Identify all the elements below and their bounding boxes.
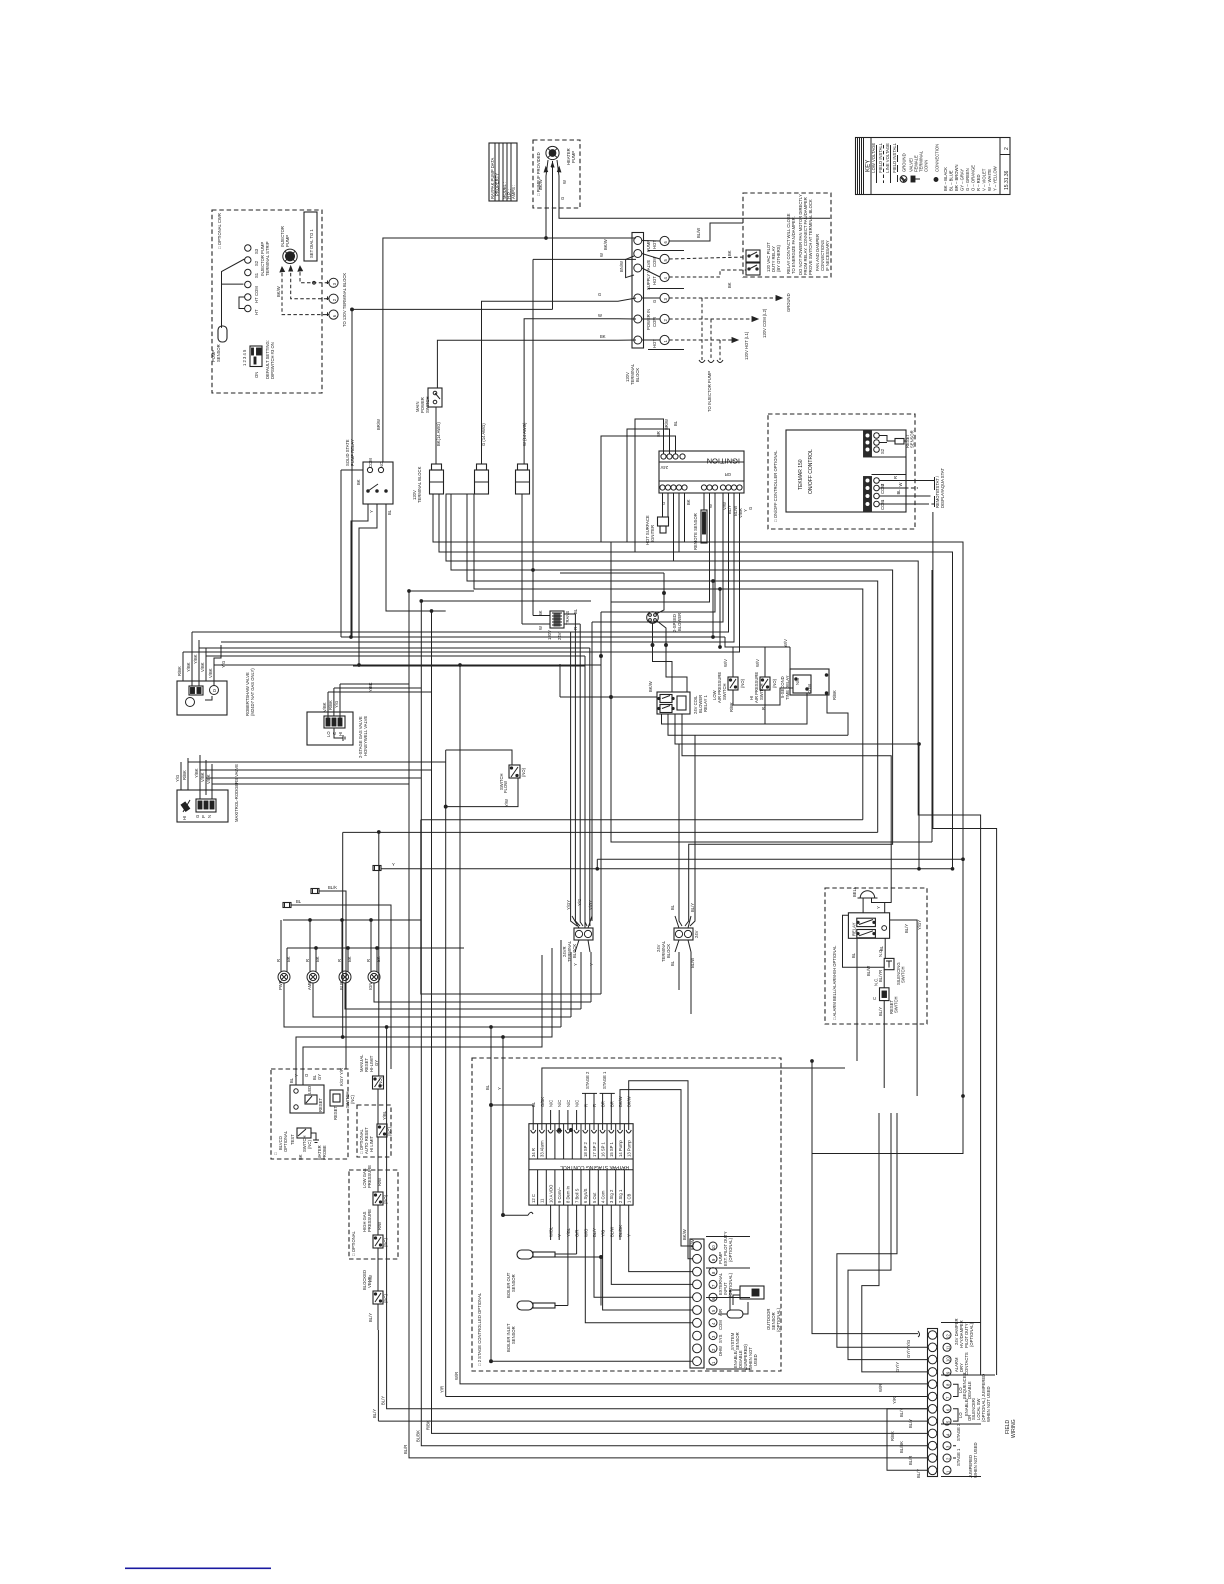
svg-text:G: G xyxy=(560,197,565,200)
svg-text:PROBE: PROBE xyxy=(322,1145,327,1160)
svg-text:(OPTIONAL): (OPTIONAL) xyxy=(969,1322,974,1347)
svg-text:BK/W: BK/W xyxy=(276,286,281,297)
svg-text:Y/G: Y/G xyxy=(601,1230,606,1237)
wire SSR BK feed xyxy=(341,470,363,637)
svg-text:TEST: TEST xyxy=(290,1134,295,1145)
svg-text:PROVE SWITCH AT TERMINAL BLOCK: PROVE SWITCH AT TERMINAL BLOCK xyxy=(808,199,813,275)
svg-text:Y/R: Y/R xyxy=(440,1386,445,1393)
wire time delay right xyxy=(827,695,848,735)
wire robertshaw leads xyxy=(177,640,226,686)
wire blower top feeds xyxy=(560,573,687,692)
svg-text:W: W xyxy=(538,626,543,630)
svg-text:RELAY: RELAY xyxy=(852,922,857,936)
key line sample low voltage xyxy=(876,145,878,183)
wire supply valve com dashed xyxy=(669,257,746,259)
svg-text:N.C.: N.C. xyxy=(874,978,879,986)
wire air switch feeds xyxy=(341,581,790,669)
staging control top pin hooks xyxy=(531,1110,632,1133)
svg-text:TEKMAR 150: TEKMAR 150 xyxy=(798,459,804,490)
svg-text:TO ENERGIZE FAN/DAMPER.: TO ENERGIZE FAN/DAMPER. xyxy=(791,216,796,274)
svg-text:AMPS :: AMPS : xyxy=(511,185,516,199)
svg-text:BL/R: BL/R xyxy=(908,1456,913,1465)
svg-text:COM: COM xyxy=(368,458,373,468)
key line sample field install xyxy=(883,145,885,183)
svg-text:24V: 24V xyxy=(557,632,562,640)
svg-text:120V HOT (L1): 120V HOT (L1) xyxy=(744,331,749,360)
svg-text:TERMINAL BLOCK: TERMINAL BLOCK xyxy=(417,466,422,503)
svg-text:W: W xyxy=(898,483,903,487)
svg-text:BK: BK xyxy=(600,334,606,339)
svg-text:BK/W: BK/W xyxy=(690,1239,695,1250)
wire honeywell leads xyxy=(322,682,373,718)
svg-text:□ ALARM BELL/ALARM-EH OPTIONAL: □ ALARM BELL/ALARM-EH OPTIONAL xyxy=(832,945,837,1020)
solid state pump relay xyxy=(345,439,393,515)
staging top wire labels xyxy=(531,1071,632,1110)
ignition control module xyxy=(659,451,744,493)
svg-text:PRESSURE: PRESSURE xyxy=(367,1209,372,1232)
footer underline xyxy=(125,1568,271,1570)
svg-text:18 SP 2: 18 SP 2 xyxy=(583,1142,588,1157)
svg-text:PUMP: PUMP xyxy=(285,235,290,247)
BLVCO optional enclosure xyxy=(271,1069,348,1159)
wire left riser y813 xyxy=(343,820,421,1076)
svg-text:(NC): (NC) xyxy=(350,1095,355,1104)
svg-text:W: W xyxy=(599,253,604,257)
wire trans outputs xyxy=(564,614,580,624)
svg-text:ENABLE/: ENABLE/ xyxy=(964,1397,969,1416)
svg-text:W/V: W/V xyxy=(723,659,728,667)
svg-text:LO: LO xyxy=(958,1412,963,1418)
wire y656 run xyxy=(600,612,602,994)
svg-text:STAGE 1: STAGE 1 xyxy=(956,1448,961,1466)
svg-text:SENSOR: SENSOR xyxy=(910,430,915,448)
svg-text:BR/W: BR/W xyxy=(664,419,669,430)
terminal 6 xyxy=(329,310,338,319)
svg-text:R: R xyxy=(276,959,281,962)
svg-text:(BY OTHERS): (BY OTHERS) xyxy=(776,244,781,272)
field strip group dividers xyxy=(941,1323,995,1477)
maxitrol rodgers valve xyxy=(177,764,239,822)
svg-text:LINE VOLTAGE: LINE VOLTAGE xyxy=(885,143,890,182)
svg-text:HONEYWELL VALVE: HONEYWELL VALVE xyxy=(363,716,368,756)
fuse holder 2 xyxy=(475,464,489,494)
fuse holder 1 xyxy=(430,464,444,494)
svg-text:□ 2 STAGE CONTROLLED OPTIONAL: □ 2 STAGE CONTROLLED OPTIONAL xyxy=(477,1292,482,1366)
svg-text:GR: GR xyxy=(725,472,731,477)
BLVCO test switch xyxy=(290,1128,327,1160)
transformer 120V/24V xyxy=(538,608,578,640)
wire ignition pin BLW xyxy=(592,493,723,622)
svg-text:R/BK: R/BK xyxy=(177,666,182,676)
svg-text:DISABLE: DISABLE xyxy=(967,1381,972,1399)
svg-text:SWITCH: SWITCH xyxy=(894,996,899,1013)
svg-text:2 Stg 1: 2 Stg 1 xyxy=(618,1189,623,1203)
svg-text:PRESSURE: PRESSURE xyxy=(367,1165,372,1188)
svg-text:AMB: AMB xyxy=(307,981,312,990)
svg-text:Y/BK: Y/BK xyxy=(186,662,191,672)
svg-text:W/BL: W/BL xyxy=(549,1226,554,1237)
svg-text:BL: BL xyxy=(670,904,675,910)
wire ignition feed BRW xyxy=(627,429,670,542)
svg-text:R: R xyxy=(305,959,310,962)
wire ground arrow xyxy=(669,293,791,312)
field wiring label xyxy=(1005,1419,1017,1438)
svg-text:R/BK: R/BK xyxy=(832,690,837,700)
svg-text:REMOTE SENSOR: REMOTE SENSOR xyxy=(693,513,698,550)
field wiring 12-terminal strip xyxy=(928,1329,938,1477)
svg-text:15 SP 1: 15 SP 1 xyxy=(609,1142,614,1157)
svg-text:CONN: CONN xyxy=(924,160,929,172)
svg-text:BL/Y: BL/Y xyxy=(904,924,909,933)
svg-text:□ OPTIONAL CWR: □ OPTIONAL CWR xyxy=(217,213,222,249)
wire lamp common bus xyxy=(283,919,421,921)
auto reset hi limit switch xyxy=(377,1110,392,1137)
indicator lamp 1 xyxy=(276,920,291,990)
svg-text:HI: HI xyxy=(338,732,343,736)
5-second time delay relay xyxy=(780,639,837,700)
wire fuse2 out B xyxy=(451,494,893,926)
svg-text:R: R xyxy=(337,959,342,962)
svg-text:SWITCH: SWITCH xyxy=(901,966,906,983)
svg-text:BELL: BELL xyxy=(852,886,857,897)
svg-text:BL/W: BL/W xyxy=(866,966,871,976)
svg-text:TO INJECTOR PUMP: TO INJECTOR PUMP xyxy=(707,371,712,412)
hot surface igniter xyxy=(645,493,669,545)
heater pump motor xyxy=(546,146,559,159)
svg-text:NO: NO xyxy=(379,461,384,468)
svg-text:24V: 24V xyxy=(694,930,699,938)
svg-text:Y – YELLOW: Y – YELLOW xyxy=(993,166,998,191)
svg-text:BL/Y: BL/Y xyxy=(727,505,732,514)
svg-text:RELAY 1: RELAY 1 xyxy=(703,694,708,712)
svg-text:FIELD INSTALL: FIELD INSTALL xyxy=(892,142,897,182)
wire ignition feed BL xyxy=(601,436,676,542)
heater pump dashed enclosure xyxy=(533,140,580,208)
svg-text:RESET: RESET xyxy=(318,1098,323,1112)
robertshaw valve xyxy=(177,668,255,716)
svg-text:R/BK: R/BK xyxy=(890,1431,895,1441)
svg-text:BL/Y: BL/Y xyxy=(592,1228,597,1237)
wire pump BKW run xyxy=(383,238,636,462)
svg-text:W/V: W/V xyxy=(755,659,760,667)
wire bell relay left loop xyxy=(843,915,885,967)
svg-text:BK/W: BK/W xyxy=(603,239,608,250)
wire ignition pin BLY xyxy=(601,493,715,612)
svg-text:BK: BK xyxy=(286,956,291,962)
svg-text:Y: Y xyxy=(627,1234,632,1237)
staging bottom wire labels xyxy=(549,1205,632,1240)
terminal 2 xyxy=(329,294,338,303)
svg-text:BK(14 AWG): BK(14 AWG) xyxy=(436,422,441,446)
svg-text:COM: COM xyxy=(254,286,259,296)
blower relay 24V coil xyxy=(648,681,708,714)
svg-text:V/BK: V/BK xyxy=(200,662,205,672)
wire central risers xyxy=(378,591,928,1458)
svg-text:K/GY Y/R: K/GY Y/R xyxy=(339,1068,344,1086)
wire pump hot to relay xyxy=(669,223,743,241)
svg-text:BK: BK xyxy=(727,250,732,256)
bell xyxy=(852,886,891,913)
svg-text:W: W xyxy=(562,180,567,184)
svg-text:BL: BL xyxy=(387,509,392,515)
svg-text:COM: COM xyxy=(718,1320,723,1330)
wire run y581 xyxy=(467,494,878,832)
svg-text:WIRING: WIRING xyxy=(1011,1419,1017,1438)
field strip group labels xyxy=(954,1318,991,1478)
svg-text:PROPERTY: PROPERTY xyxy=(495,173,500,196)
wire low air switch xyxy=(733,647,793,705)
svg-text:STAGE 2: STAGE 2 xyxy=(585,1071,590,1089)
staging strip numbers xyxy=(709,1242,717,1365)
tekmar field wires xyxy=(880,468,946,508)
svg-text:SWITCH: SWITCH xyxy=(722,683,727,700)
tekmar sensor loop xyxy=(880,430,915,448)
svg-text:BK/W: BK/W xyxy=(538,179,543,190)
svg-text:(OPTIONAL): (OPTIONAL) xyxy=(728,1237,733,1262)
wire run y813 xyxy=(421,819,863,821)
svg-text:HT: HT xyxy=(254,297,259,303)
svg-text:S1: S1 xyxy=(254,272,259,278)
wire ignition pin G xyxy=(673,493,675,561)
svg-text:BL/Y: BL/Y xyxy=(690,903,695,912)
svg-text:N: N xyxy=(207,815,212,818)
svg-text:BL: BL xyxy=(573,608,578,614)
svg-text:O/R: O/R xyxy=(575,1230,580,1237)
svg-text:Y: Y xyxy=(369,510,374,513)
2 stage controlled optional enclosure xyxy=(472,1058,781,1371)
svg-text:BLOCK: BLOCK xyxy=(666,944,671,958)
svg-text:R: R xyxy=(366,959,371,962)
svg-text:BL: BL xyxy=(673,420,678,426)
svg-text:7 Boil S: 7 Boil S xyxy=(574,1188,579,1203)
tekmar on/off control enclosure xyxy=(768,414,915,529)
svg-text:Y/BK: Y/BK xyxy=(193,654,198,664)
reset switch xyxy=(872,978,899,1014)
svg-text:W/R: W/R xyxy=(454,1372,459,1380)
key colour codes xyxy=(943,164,998,191)
svg-text:Y: Y xyxy=(876,906,881,909)
svg-text:OR: OR xyxy=(967,1415,972,1421)
svg-text:RAYPAK STAGING CONTROL: RAYPAK STAGING CONTROL xyxy=(560,1164,629,1170)
svg-text:W: W xyxy=(598,313,602,318)
svg-text:PWR: PWR xyxy=(278,980,283,990)
wire run y827 xyxy=(343,831,878,833)
svg-text:8 Dem In: 8 Dem In xyxy=(566,1185,571,1203)
wire reset down to alarm relay xyxy=(883,1001,885,1088)
svg-text:V/BK: V/BK xyxy=(322,702,327,712)
wire robertshaw leads to band xyxy=(192,632,601,686)
svg-text:LOW VOLTAGE: LOW VOLTAGE xyxy=(871,143,876,182)
high air pressure switch xyxy=(749,659,777,710)
field strip number circles xyxy=(943,1331,951,1474)
ignition pin labels xyxy=(656,419,753,518)
svg-text:Y/G: Y/G xyxy=(175,775,180,782)
svg-text:Y/BK: Y/BK xyxy=(194,768,199,778)
svg-text:17 SP 2: 17 SP 2 xyxy=(592,1142,597,1157)
wire 120V com arrow xyxy=(669,308,767,338)
wire silencing to reset xyxy=(883,970,885,988)
wire staging Y feed xyxy=(503,1037,533,1215)
svg-text:FIELD INSTALL: FIELD INSTALL xyxy=(878,142,883,182)
wire flow switch run xyxy=(446,750,518,1397)
svg-text:ON/OFF CONTROL: ON/OFF CONTROL xyxy=(808,449,814,494)
key valve / female terminal symbol xyxy=(909,150,929,182)
svg-text:Y/GY: Y/GY xyxy=(917,920,922,930)
svg-text:BK: BK xyxy=(315,956,320,962)
svg-text:(OPTIONAL): (OPTIONAL) xyxy=(776,1307,781,1332)
120V power terminal block xyxy=(625,233,644,386)
svg-text:(NO): (NO) xyxy=(521,767,526,777)
svg-text:Y/G: Y/G xyxy=(577,899,582,906)
svg-text:ON: ON xyxy=(254,372,259,378)
svg-text:4 Com: 4 Com xyxy=(600,1190,605,1203)
2-speed blower motor xyxy=(647,612,682,632)
svg-text:BN/W: BN/W xyxy=(619,261,624,272)
svg-text:Y: Y xyxy=(392,862,395,867)
svg-text:120V COM (L2): 120V COM (L2) xyxy=(762,308,767,338)
svg-text:BL/W: BL/W xyxy=(696,228,701,238)
svg-text:WHEN NOT USED: WHEN NOT USED xyxy=(973,1442,978,1478)
staging strip group dividers xyxy=(706,1231,758,1370)
svg-text:DISPLAY: DISPLAY xyxy=(940,490,945,508)
key line sample field install line voltage xyxy=(897,145,899,183)
svg-text:SENSOR: SENSOR xyxy=(511,1326,516,1344)
wire SSR pin1 xyxy=(351,504,474,637)
svg-text:USED: USED xyxy=(753,1354,758,1366)
svg-text:TERMINAL STRIP: TERMINAL STRIP xyxy=(265,241,270,276)
svg-text:Y: Y xyxy=(557,1234,562,1237)
svg-text:IGNITER: IGNITER xyxy=(650,525,655,542)
gas pressure optional enclosure xyxy=(349,1170,398,1259)
svg-text:GY: GY xyxy=(374,1060,379,1066)
svg-text:GY/Y: GY/Y xyxy=(895,1362,900,1372)
injector pump motor xyxy=(280,226,297,263)
svg-text:BL – BLUE: BL – BLUE xyxy=(949,170,954,191)
wire fuse1 out A xyxy=(433,494,963,1337)
svg-text:BK: BK xyxy=(298,1154,303,1160)
svg-text:SUPPLY VALVE: SUPPLY VALVE xyxy=(646,260,651,290)
svg-text:16 SP 1: 16 SP 1 xyxy=(600,1142,605,1157)
svg-text:N/C: N/C xyxy=(549,1100,554,1107)
svg-text:CONNECTION: CONNECTION xyxy=(935,144,940,172)
svg-text:IGN: IGN xyxy=(368,983,373,990)
wire block to terminals xyxy=(642,241,660,341)
svg-text:Y/W: Y/W xyxy=(504,799,509,807)
svg-text:RESET: RESET xyxy=(333,1106,338,1120)
svg-text:COM: COM xyxy=(880,484,885,494)
svg-text:Y/G: Y/G xyxy=(334,701,339,708)
low gas pressure switch xyxy=(362,1165,388,1205)
svg-text:Y/R: Y/R xyxy=(892,1397,897,1404)
svg-text:BLOCK: BLOCK xyxy=(635,368,640,382)
raypak pump data table xyxy=(489,143,517,201)
wire staging BL feed xyxy=(491,1027,692,1361)
svg-text:S3: S3 xyxy=(254,248,259,254)
svg-text:BK/W: BK/W xyxy=(682,1229,687,1240)
key line sample line voltage xyxy=(890,145,892,183)
key connection dot xyxy=(934,144,940,182)
svg-text:GY/Y Y/G: GY/Y Y/G xyxy=(906,1340,911,1358)
svg-text:DHW: DHW xyxy=(718,1346,723,1356)
svg-text:(NC): (NC) xyxy=(387,1127,392,1136)
alarm bell optional enclosure xyxy=(825,888,927,1024)
svg-text:HOT: HOT xyxy=(652,276,657,285)
svg-text:C: C xyxy=(872,997,877,1000)
flow switch xyxy=(499,765,526,807)
svg-text:N/C: N/C xyxy=(575,1100,580,1107)
wire ignition pin BK xyxy=(678,493,680,552)
fuse holder 3 xyxy=(516,464,530,494)
svg-text:(NO): (NO) xyxy=(772,678,777,688)
svg-text:SWITCH: SWITCH xyxy=(425,396,430,413)
svg-text:IGNITION: IGNITION xyxy=(707,457,740,466)
svg-text:COM: COM xyxy=(880,500,885,510)
svg-text:□ OPTIONAL: □ OPTIONAL xyxy=(351,1230,356,1256)
svg-text:N/C: N/C xyxy=(566,1100,571,1107)
svg-text:W: W xyxy=(708,504,713,508)
wire gas train chain xyxy=(377,1089,379,1330)
svg-text:LO: LO xyxy=(958,1387,963,1393)
wire boiler sensors to staging xyxy=(555,1240,601,1306)
wire maxitrol leads xyxy=(175,755,212,799)
main power switch xyxy=(415,388,442,413)
svg-text:V/BK: V/BK xyxy=(208,668,213,678)
svg-text:11: 11 xyxy=(540,1198,545,1203)
120V terminal block fuse holders xyxy=(412,466,422,503)
svg-text:R/BK: R/BK xyxy=(182,770,187,780)
svg-text:V/BK: V/BK xyxy=(200,772,205,782)
svg-text:BLR: BLR xyxy=(339,982,344,990)
svg-text:(M24D7 NAT GAS ONLY): (M24D7 NAT GAS ONLY) xyxy=(250,668,255,716)
wire staging OBK to alarm xyxy=(542,1068,845,1110)
wire bell relay BL down xyxy=(856,938,858,1061)
boiler inlet sensor xyxy=(506,1301,555,1352)
wire lamp return bus xyxy=(287,947,464,949)
svg-text:HI LIMIT: HI LIMIT xyxy=(369,1136,374,1152)
svg-text:SENSOR: SENSOR xyxy=(216,344,221,362)
wire RBK trans to blower relay xyxy=(560,542,932,842)
remote sensor xyxy=(693,493,707,550)
svg-text:1 CB: 1 CB xyxy=(627,1193,632,1203)
svg-text:CONTACTS: CONTACTS xyxy=(964,1352,969,1375)
staging 10-terminal strip xyxy=(690,1239,704,1368)
terminal 2 power in com xyxy=(660,314,669,323)
wire central riser junctions xyxy=(459,664,462,667)
svg-text:R – RED: R – RED xyxy=(976,174,981,191)
svg-text:BL: BL xyxy=(896,489,901,495)
svg-text:BR/W: BR/W xyxy=(376,419,381,430)
svg-text:BL/K: BL/K xyxy=(328,885,337,890)
svg-text:SENSOR: SENSOR xyxy=(511,1274,516,1292)
svg-text:SYS: SYS xyxy=(718,1334,723,1343)
svg-text:SENSOR: SENSOR xyxy=(735,1332,740,1350)
field strip wire labels xyxy=(878,1340,921,1478)
svg-text:(NC): (NC) xyxy=(307,1140,312,1149)
set dial to 1 xyxy=(304,212,317,261)
wire injector pump leads dashed xyxy=(282,267,328,315)
svg-text:D: D xyxy=(212,689,217,692)
svg-text:Y: Y xyxy=(573,963,578,966)
svg-text:DIPSWITCH #3 ON: DIPSWITCH #3 ON xyxy=(270,342,275,379)
terminal 4 supply valve hot xyxy=(660,272,669,281)
svg-text:GY – GRAY: GY – GRAY xyxy=(960,169,965,191)
svg-text:G: G xyxy=(661,502,666,505)
svg-text:Y/BL: Y/BL xyxy=(566,1227,571,1237)
svg-text:COM: COM xyxy=(652,317,657,327)
optional CWR dashed enclosure xyxy=(212,210,322,393)
wire supply valve jumper xyxy=(626,256,634,278)
svg-text:R: R xyxy=(893,476,898,479)
